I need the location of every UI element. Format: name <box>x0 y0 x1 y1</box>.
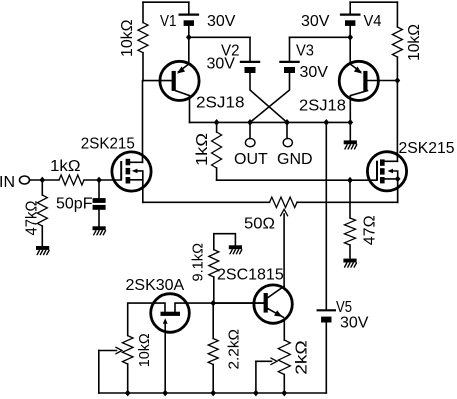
svg-text:10kΩ: 10kΩ <box>406 24 423 61</box>
svg-text:V1: V1 <box>160 13 177 30</box>
svg-text:2SJ18: 2SJ18 <box>196 95 245 112</box>
svg-text:30V: 30V <box>207 56 236 73</box>
svg-text:1kΩ: 1kΩ <box>194 133 211 166</box>
svg-text:GND: GND <box>277 151 313 168</box>
svg-text:10kΩ: 10kΩ <box>119 19 136 57</box>
svg-text:2SK30A: 2SK30A <box>126 277 185 294</box>
svg-text:30V: 30V <box>300 64 329 81</box>
svg-text:OUT: OUT <box>234 151 268 168</box>
svg-text:V4: V4 <box>364 13 382 30</box>
svg-text:2SK215: 2SK215 <box>81 136 135 153</box>
svg-text:V3: V3 <box>296 43 314 60</box>
svg-text:10kΩ: 10kΩ <box>136 333 153 367</box>
svg-text:47Ω: 47Ω <box>362 215 379 245</box>
svg-text:50pF: 50pF <box>56 196 93 213</box>
svg-text:47kΩ: 47kΩ <box>24 200 41 235</box>
svg-text:2SC1815: 2SC1815 <box>217 267 284 284</box>
svg-text:2SK215: 2SK215 <box>399 140 455 157</box>
svg-text:2kΩ: 2kΩ <box>294 340 311 375</box>
svg-text:2SJ18: 2SJ18 <box>299 98 346 115</box>
svg-text:1kΩ: 1kΩ <box>50 158 81 175</box>
svg-text:2.2kΩ: 2.2kΩ <box>226 329 243 370</box>
svg-text:50Ω: 50Ω <box>244 216 275 233</box>
svg-text:9.1kΩ: 9.1kΩ <box>190 243 207 282</box>
svg-text:V5: V5 <box>336 299 352 316</box>
svg-text:IN: IN <box>0 174 15 191</box>
svg-text:30V: 30V <box>207 13 236 30</box>
svg-text:30V: 30V <box>301 13 330 30</box>
svg-text:30V: 30V <box>340 315 369 332</box>
